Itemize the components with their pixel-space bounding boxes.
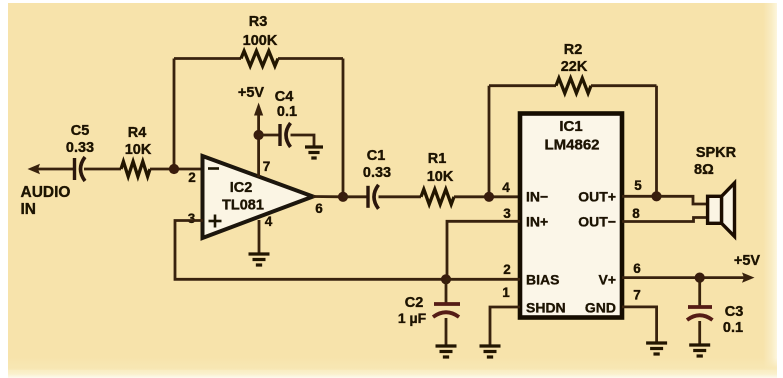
svg-text:R3: R3 (249, 14, 268, 30)
wire op-amp pin 7 supply (257, 135, 260, 177)
wire node E to IC1 pin 4 (489, 195, 519, 198)
svg-text:0.33: 0.33 (363, 165, 391, 181)
wire C1 to R1 (379, 195, 422, 198)
svg-text:GND: GND (585, 300, 616, 316)
wire R1 to node E (454, 195, 489, 198)
wire node D to C4 (259, 134, 279, 137)
wire op-amp pin 4 (258, 220, 261, 254)
capacitor C2 1uF (398, 279, 460, 326)
wire R2 right vertical down to node F (655, 86, 658, 197)
node E junction (484, 192, 494, 202)
node C junction (rail/IN+/C2) (441, 274, 451, 284)
svg-text:OUT−: OUT− (578, 214, 616, 230)
capacitor C4 0.1 (275, 89, 297, 147)
ground IC1 pin 7 (646, 341, 667, 344)
svg-text:3: 3 (188, 211, 196, 226)
node A junction (169, 164, 179, 174)
wire C2 to ground (445, 318, 448, 346)
wire C5 to R4 (84, 168, 121, 171)
wire IC1 pin 8 OUT- to speaker (622, 218, 708, 222)
wire IC1 pin 1 SHDN (490, 307, 520, 346)
wire output vertical (R3 down to node B) (342, 59, 345, 198)
wire R2 left vertical (488, 86, 491, 197)
svg-text:C1: C1 (367, 148, 386, 164)
svg-text:1: 1 (502, 285, 510, 300)
svg-text:LM4862: LM4862 (544, 137, 599, 154)
svg-text:AUDIO: AUDIO (21, 184, 71, 201)
node B junction (output/C1) (338, 192, 348, 202)
svg-text:10K: 10K (125, 142, 152, 158)
resistor R1 10K (421, 151, 454, 204)
speaker SPKR 8 ohm (694, 145, 737, 237)
wire IC1 pin 5 OUT+ to node F (622, 195, 657, 198)
power +5V left arrow (238, 85, 265, 135)
wire IC1 pin 6 V+ to +5V (622, 276, 744, 279)
wire feedback left vertical (node A up to R3) (173, 59, 176, 170)
svg-text:6: 6 (315, 201, 323, 216)
wire op-amp output to node B (313, 195, 343, 198)
wire C4 to ground (291, 135, 315, 147)
node D junction (pin7/+5V/C4) (254, 130, 264, 140)
wire node F to speaker (657, 196, 709, 204)
svg-text:0.33: 0.33 (66, 140, 94, 156)
capacitor C5 0.33 (66, 123, 94, 181)
resistor R2 22K (556, 42, 591, 93)
svg-text:1 µF: 1 µF (398, 310, 427, 326)
capacitor C3 0.1 (687, 278, 743, 336)
capacitor C1 0.33 (363, 148, 391, 209)
node F junction (651, 191, 661, 201)
svg-text:IN−: IN− (526, 189, 548, 205)
svg-text:22K: 22K (561, 59, 588, 75)
IC1 LM4862 box (520, 114, 622, 318)
svg-text:R1: R1 (428, 151, 447, 167)
op-amp IC2 TL081 (203, 156, 314, 238)
svg-text:8: 8 (632, 206, 640, 221)
svg-text:C4: C4 (275, 89, 294, 105)
svg-text:2: 2 (188, 170, 196, 185)
svg-text:IC2: IC2 (230, 180, 253, 196)
svg-text:OUT+: OUT+ (578, 189, 616, 205)
resistor R4 10K (121, 125, 152, 177)
svg-text:6: 6 (633, 261, 641, 276)
svg-text:TL081: TL081 (222, 198, 264, 214)
svg-text:0.1: 0.1 (723, 320, 743, 336)
wire R2 top-left segment (489, 84, 556, 87)
resistor R3 100K (241, 14, 278, 66)
svg-text:R2: R2 (564, 42, 583, 58)
svg-text:BIAS: BIAS (526, 272, 559, 288)
wire R3 top-right segment (278, 57, 343, 60)
svg-text:IN+: IN+ (526, 214, 548, 230)
wire R4 to node A (150, 168, 174, 171)
wire node C to IC1 pin 2 BIAS (446, 278, 520, 281)
ground C4 (305, 145, 323, 148)
svg-text:4: 4 (265, 214, 273, 229)
ground op-amp pin 4 (249, 252, 270, 255)
svg-text:+5V: +5V (734, 253, 761, 269)
svg-text:4: 4 (502, 180, 510, 195)
node G junction (V+/C3) (695, 273, 705, 283)
power +5V right arrow (734, 253, 761, 283)
svg-text:3: 3 (503, 206, 511, 221)
svg-text:2: 2 (503, 262, 511, 277)
wire AUDIO IN arrow (21, 164, 74, 218)
wire node A to op-amp pin 2 (174, 168, 203, 171)
svg-text:10K: 10K (427, 169, 454, 185)
wire R2 top-right segment (591, 84, 657, 87)
wire IC1 pin 3 IN+ (447, 221, 520, 279)
wire IC1 pin 7 GND (622, 307, 657, 343)
svg-text:7: 7 (633, 288, 641, 303)
svg-text:V+: V+ (598, 272, 616, 288)
wire node B to C1 (343, 195, 367, 198)
svg-text:7: 7 (263, 159, 271, 174)
wire op-amp pin 3 input (175, 221, 446, 280)
ground C2 (436, 344, 457, 347)
svg-text:+5V: +5V (238, 85, 265, 101)
svg-text:IC1: IC1 (559, 118, 582, 135)
svg-text:SHDN: SHDN (526, 300, 566, 316)
svg-text:100K: 100K (243, 33, 278, 49)
svg-text:0.1: 0.1 (277, 104, 297, 120)
svg-text:IN: IN (21, 201, 37, 218)
ground SHDN (480, 344, 501, 347)
svg-text:5: 5 (634, 178, 642, 193)
svg-text:C5: C5 (71, 123, 90, 139)
ground C3 (689, 343, 710, 346)
wire C3 to ground (698, 321, 701, 345)
svg-text:C2: C2 (405, 295, 424, 311)
svg-text:C3: C3 (725, 304, 744, 320)
svg-text:SPKR: SPKR (696, 145, 737, 161)
wire R3 top-left segment (174, 57, 241, 60)
svg-text:8Ω: 8Ω (694, 162, 714, 178)
svg-text:R4: R4 (128, 125, 147, 141)
